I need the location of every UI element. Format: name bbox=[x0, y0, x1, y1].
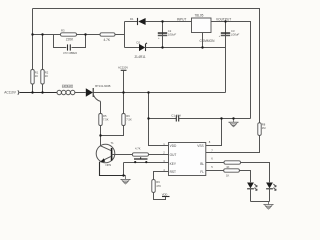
wire LED common bbox=[251, 201, 270, 203]
svg-text:AC110V: AC110V bbox=[4, 90, 17, 94]
IC U1 bbox=[169, 143, 206, 176]
resistor R2 bbox=[41, 70, 49, 85]
svg-text:47V CBB22: 47V CBB22 bbox=[63, 51, 78, 55]
wire input rail bbox=[146, 21, 192, 23]
AC220V terminal bbox=[118, 65, 128, 92]
wire bbox=[115, 34, 125, 36]
svg-text:1K: 1K bbox=[45, 74, 48, 78]
svg-text:78L05: 78L05 bbox=[195, 13, 204, 17]
resistor R9 47K bbox=[152, 172, 169, 200]
svg-text:100uF: 100uF bbox=[231, 33, 239, 37]
wire common pin bbox=[202, 33, 204, 48]
wire emitter down bbox=[100, 162, 126, 176]
resistor R3 220K bbox=[61, 29, 77, 42]
wire mains rail right bbox=[93, 92, 225, 94]
inductor L1 coil bbox=[57, 85, 75, 95]
svg-text:FL: FL bbox=[200, 170, 204, 174]
wire common rail bbox=[146, 47, 226, 49]
svg-text:NPN: NPN bbox=[106, 163, 112, 167]
resistor R11 1K (FL) bbox=[206, 169, 251, 183]
svg-text:INPUT: INPUT bbox=[177, 18, 187, 22]
svg-text:ZL4R11: ZL4R11 bbox=[135, 55, 146, 59]
svg-text:4.7K: 4.7K bbox=[135, 146, 141, 150]
regulator U2 78L05 bbox=[177, 13, 231, 42]
wire top loop bbox=[33, 9, 260, 123]
wire to diode bbox=[125, 21, 138, 23]
svg-text:4.7K: 4.7K bbox=[104, 38, 111, 42]
wire VSS riser bbox=[206, 119, 222, 146]
triac Q2 BT131-600B bbox=[86, 84, 111, 101]
ground bbox=[228, 119, 238, 128]
wire bbox=[77, 34, 101, 36]
capacitor C3 100uF bbox=[219, 22, 240, 93]
transistor T1 bbox=[96, 141, 115, 167]
svg-text:C1 104: C1 104 bbox=[171, 113, 181, 117]
capacitor C4 CBB22 branch bbox=[54, 35, 86, 56]
resistor R6 7.5K right bbox=[101, 93, 133, 136]
svg-text:AC220V: AC220V bbox=[118, 65, 128, 69]
svg-text:BT131-600B: BT131-600B bbox=[95, 84, 110, 88]
wire second vertical bbox=[42, 35, 44, 70]
resistor R5 7.5K left bbox=[99, 101, 109, 145]
LED D3 bbox=[247, 183, 257, 202]
resistor R10 1K (BL) bbox=[206, 161, 270, 183]
svg-text:COMMON: COMMON bbox=[200, 39, 216, 43]
svg-text:47K: 47K bbox=[156, 184, 161, 188]
wire VDD feed bbox=[149, 93, 169, 146]
svg-text:BL: BL bbox=[200, 162, 204, 166]
ground bbox=[263, 202, 273, 210]
wire output rail bbox=[211, 22, 251, 119]
svg-text:7.5K: 7.5K bbox=[103, 118, 109, 122]
node VDD power symbol bbox=[162, 193, 170, 197]
svg-text:100uF: 100uF bbox=[168, 33, 176, 37]
svg-text:RST: RST bbox=[170, 170, 176, 174]
svg-text:VSS: VSS bbox=[197, 144, 203, 148]
svg-text:R2: R2 bbox=[45, 71, 49, 75]
svg-text:VDD: VDD bbox=[162, 193, 168, 197]
AC110V terminal bbox=[4, 90, 19, 94]
svg-text:7.5K: 7.5K bbox=[126, 118, 132, 122]
zener D2 ZL4R11 bbox=[135, 41, 148, 59]
wire bbox=[75, 92, 86, 94]
zener wire bbox=[125, 47, 140, 49]
wire right loop lower to pin 7 bbox=[206, 135, 260, 152]
svg-text:T1: T1 bbox=[111, 141, 115, 145]
wire mains rail left bbox=[20, 92, 58, 94]
capacitor C2 100uF bbox=[158, 22, 176, 48]
svg-text:1K: 1K bbox=[35, 74, 38, 78]
resistor R1 bbox=[31, 70, 39, 85]
wire top bus bbox=[33, 34, 61, 36]
LED D4 bbox=[266, 183, 276, 202]
svg-text:R5: R5 bbox=[103, 114, 107, 118]
svg-text:R9: R9 bbox=[156, 180, 160, 184]
wire left vertical bbox=[32, 9, 34, 70]
svg-text:D1: D1 bbox=[130, 17, 134, 21]
capacitor C1 104 line bbox=[149, 113, 251, 121]
resistor R4 4.7K bbox=[100, 33, 115, 42]
svg-text:R1: R1 bbox=[35, 71, 39, 75]
svg-text:1K: 1K bbox=[226, 173, 229, 177]
svg-text:D2: D2 bbox=[137, 41, 141, 45]
resistor R7 4.7K base bbox=[112, 146, 169, 156]
wire bbox=[42, 84, 44, 93]
svg-text:220K: 220K bbox=[66, 38, 74, 42]
svg-text:VDD: VDD bbox=[170, 144, 177, 148]
diode D1 bbox=[130, 17, 146, 25]
switch S1 bbox=[124, 157, 169, 175]
svg-text:R6: R6 bbox=[126, 114, 130, 118]
svg-text:KEY: KEY bbox=[170, 162, 177, 166]
resistor R8 1M bbox=[258, 123, 266, 136]
wire bbox=[32, 84, 34, 93]
svg-text:R3: R3 bbox=[61, 29, 65, 33]
wire vertical rectifier node bbox=[124, 22, 126, 48]
ground bbox=[120, 176, 130, 185]
svg-text:OUT: OUT bbox=[170, 153, 177, 157]
pin numbers bbox=[163, 140, 213, 172]
